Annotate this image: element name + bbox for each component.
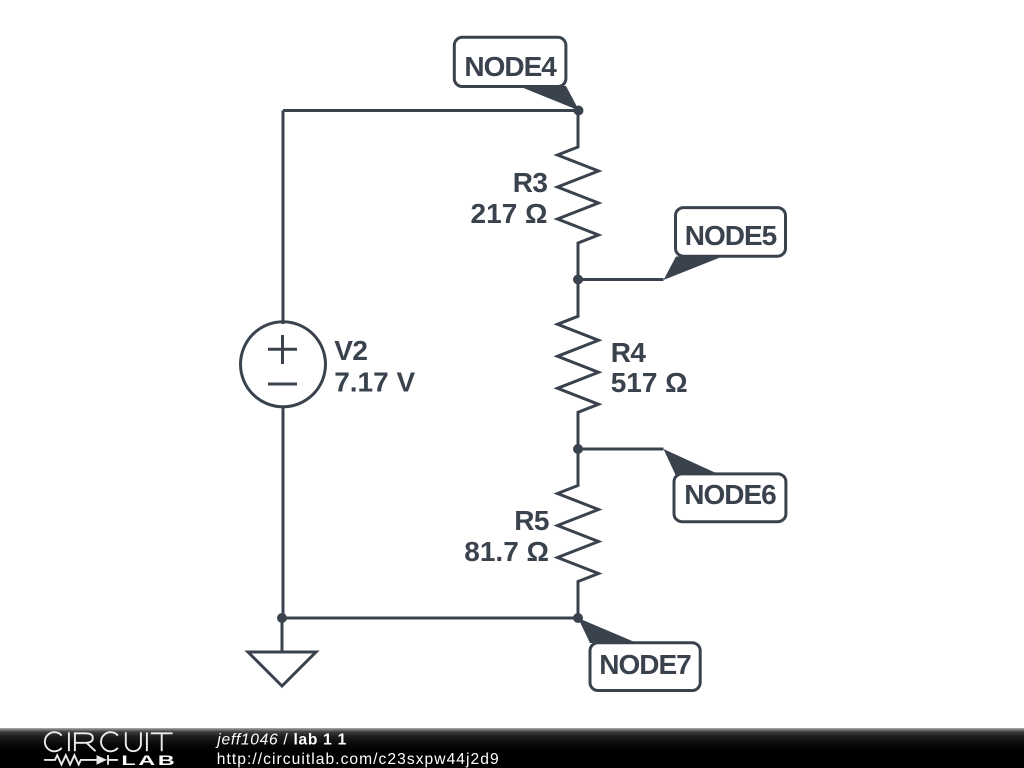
svg-text:jeff1046 / lab 1 1: jeff1046 / lab 1 1 (215, 732, 347, 749)
svg-text:http://circuitlab.com/c23sxpw4: http://circuitlab.com/c23sxpw44j2d9 (217, 751, 500, 768)
svg-text:LAB: LAB (121, 754, 177, 768)
